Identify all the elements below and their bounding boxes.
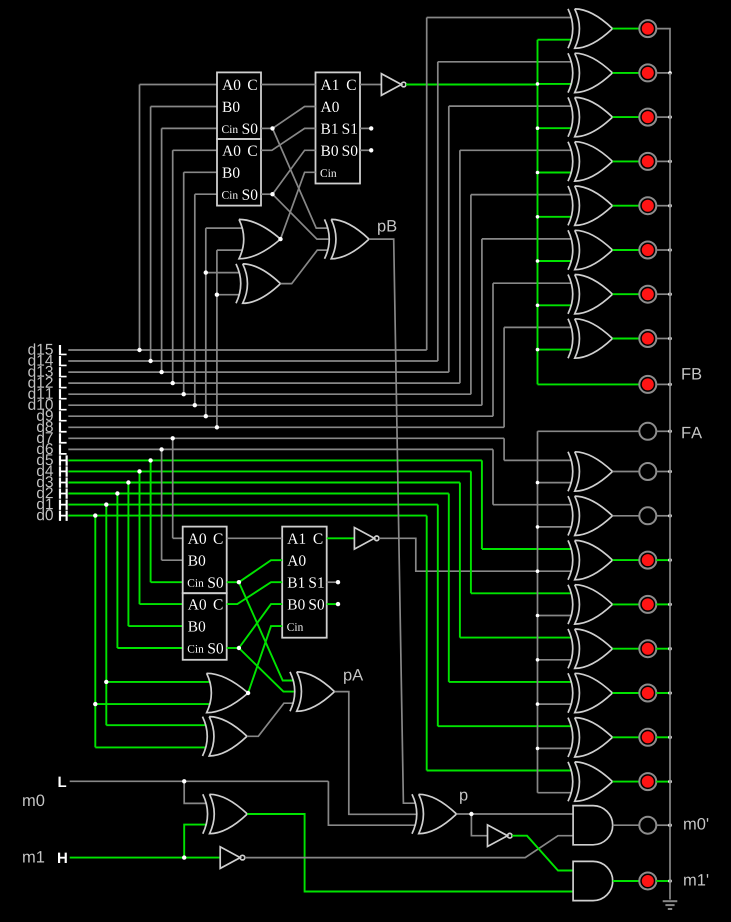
and gate m1' — [573, 861, 613, 900]
wire m0 to XOR p input 3 — [328, 781, 416, 825]
wire NOT-A out to gray bus and gate FO2 input — [379, 538, 572, 571]
wire d4 to XOR FA4 input 1 — [471, 592, 572, 594]
wire m1' AND to LED — [613, 880, 640, 882]
input pin d1 state glyph — [59, 500, 68, 510]
input pin d12 label — [28, 376, 52, 387]
two-bit adder block U-B — [316, 72, 361, 183]
input pin m1 state H — [58, 853, 67, 863]
wire d7 column down — [172, 438, 174, 538]
input pin d11 label — [28, 388, 52, 399]
or gate OR-A (d1,d0 carry) — [207, 673, 249, 712]
input pin d3 state glyph — [59, 477, 68, 487]
wire row d0 — [68, 515, 426, 517]
wire XOR FB4 to LED — [613, 160, 640, 162]
input pin d4 label — [37, 465, 53, 476]
wire XOR FA3 to LED — [613, 559, 640, 561]
label m1' — [684, 874, 708, 885]
xor gate pA (3-input parity) — [297, 672, 335, 711]
junction d0 column — [93, 702, 97, 706]
junction gray bus row 1 — [536, 481, 540, 485]
xor gate FB8 (bit 8 compare) — [575, 319, 613, 358]
FA-A1 pin labels — [188, 533, 206, 543]
junction d8 row — [215, 425, 219, 429]
junction d13 row — [159, 370, 163, 374]
wire LED bit 0 to rail — [656, 781, 670, 783]
wire XOR FB1 to LED — [613, 28, 640, 30]
junction d4 row — [137, 469, 141, 473]
junction rail bit 0 — [668, 780, 672, 784]
wire FA-B1 S0 to XOR pB input 1 — [273, 128, 329, 228]
wire d5 column down — [150, 460, 152, 582]
wire d10 to adder input — [195, 193, 217, 195]
junction green bus row 2 — [536, 82, 540, 86]
xor gate XOR-m (m0 xor m1) — [210, 794, 248, 833]
wire green bus to XOR FB5 input 2 — [538, 216, 573, 218]
label m0' — [684, 818, 708, 830]
wire d9 right column up — [492, 283, 494, 416]
LED output bit 6 (off) — [639, 507, 656, 524]
wire row d4 — [68, 470, 471, 472]
wire d11 column up — [183, 172, 185, 394]
label m1 — [23, 851, 44, 862]
junction d10 row — [193, 403, 197, 407]
junction green bus row 5 — [536, 215, 540, 219]
wire U-A S1 stub — [327, 581, 338, 583]
input pin d10 state glyph — [59, 400, 67, 410]
wire d10 column up — [194, 194, 196, 405]
xor gate FB6 (bit 10 compare) — [575, 230, 613, 269]
wire LED m1' to rail — [656, 880, 670, 882]
wire d6 to XOR FA2 input 1 — [493, 504, 572, 506]
full adder block FA-A1 — [183, 527, 227, 594]
wire XOR FA2 to LED — [613, 515, 640, 517]
LED output bit 14 (on) — [639, 64, 656, 81]
junction d8 column — [215, 293, 219, 297]
label pB — [378, 220, 396, 235]
junction d14 row — [148, 359, 152, 363]
wire d15 column up — [139, 85, 141, 351]
wire FA-B1 C to U-B A1 — [261, 84, 316, 86]
wire green bus to XOR FB1 input 2 — [538, 39, 573, 41]
junction rail bit 7 — [668, 470, 672, 474]
LED m1' (on) — [639, 873, 656, 890]
input pin d14 state glyph — [59, 356, 67, 366]
wire FA-A1 C to U-A A1 — [227, 537, 283, 539]
junction m0 row — [182, 779, 186, 783]
junction rail m0' — [668, 823, 672, 827]
wire NOT-p out to AND m1' input 1 — [512, 836, 573, 871]
junction d0 row — [93, 513, 97, 517]
xor gate pB (3-input parity) — [331, 219, 369, 258]
junction d7 row — [171, 436, 175, 440]
wire U-B C to inverter — [360, 84, 381, 86]
wire green bus to XOR FB6 input 2 — [538, 260, 573, 262]
wire d2 column down — [116, 494, 118, 649]
FA-A2 pin labels — [188, 599, 206, 609]
wire d7 to adder input — [173, 537, 183, 539]
LED output bit 4 (on) — [639, 596, 656, 613]
input pin m0 state L — [59, 777, 67, 787]
wire d4 to adder input — [140, 603, 183, 605]
label pA — [344, 669, 363, 684]
LED output bit 2 (on) — [639, 685, 656, 702]
wire m0 row — [70, 780, 329, 782]
wire d12 right column up — [459, 150, 461, 383]
junction rail bit 1 — [668, 736, 672, 740]
wire FA-A2 C to U-A B1 — [227, 582, 283, 604]
wire gray bus to XOR FA2 input 2 — [538, 526, 573, 528]
wire OR-A out to U-A Cin — [248, 626, 282, 693]
wire d5 to XOR FA3 input 1 — [482, 548, 572, 550]
LED FB (on) — [639, 376, 656, 393]
wire green bus to XOR FB8 input 2 — [538, 349, 573, 351]
wire XOR FB3 to LED — [613, 116, 640, 118]
wire row d3 — [68, 482, 460, 484]
wire gray bus to XOR FA1 input 2 — [538, 482, 573, 484]
wire XOR FA4 to LED — [613, 603, 640, 605]
wire d15 right column up — [426, 18, 428, 351]
junction rail bit 8 — [668, 337, 672, 341]
wire XOR FB2 to LED — [613, 72, 640, 74]
junction FA-A2 S0 — [237, 646, 241, 650]
junction FA-B1 S0 — [270, 126, 274, 130]
wire LED bit 12 to rail — [656, 160, 670, 162]
xor gate FB3 (bit 13 compare) — [575, 97, 613, 136]
junction d1 column — [104, 680, 108, 684]
wire FA-A1 S0 to U-A A0 — [239, 560, 282, 582]
junction gray bus row 3 — [536, 569, 540, 573]
wire LED bit 4 to rail — [656, 603, 670, 605]
wire U-A S0 stub — [327, 603, 338, 605]
or gate OR-B (d9,d8 carry) — [239, 219, 281, 258]
junction d5 row — [148, 458, 152, 462]
junction rail m1' — [668, 879, 672, 883]
wire FA-B2 S0 stub — [261, 193, 273, 195]
wire row d12 — [68, 382, 460, 384]
wire d3 to adder input — [128, 625, 182, 627]
wire d1 to XOR gate A — [106, 724, 206, 726]
wire LED FA to rail — [656, 430, 670, 432]
wire gray bus to XOR FA4 input 2 — [538, 615, 573, 617]
junction OR-B output — [278, 237, 282, 241]
wire XOR-m out to AND m1' input 2 — [247, 814, 573, 892]
wire FA-B1 S0 stub — [261, 127, 273, 129]
wire d0 right column down — [426, 516, 428, 771]
wire d11 right column up — [470, 195, 472, 395]
wire output rail vertical — [669, 73, 671, 900]
input pin d14 label — [28, 354, 53, 365]
full adder block FA-A2 — [183, 593, 227, 660]
wire U-B S0 stub — [360, 149, 371, 151]
wire d8 to OR gate B — [217, 249, 243, 251]
junction rail bit 4 — [668, 603, 672, 607]
two-bit adder block U-A — [282, 527, 327, 638]
junction p output — [469, 812, 473, 816]
wire d13 to XOR FB3 input 1 — [449, 105, 572, 107]
LED output bit 0 (on) — [639, 773, 656, 790]
LED output bit 5 (on) — [639, 552, 656, 569]
wire row d9 — [68, 415, 493, 417]
full adder block FA-B2 — [217, 139, 261, 206]
wire row d6 — [68, 448, 493, 450]
inverter NOT-p — [488, 825, 508, 847]
wire d8 right column up — [503, 327, 505, 427]
wire LED bit 7 to rail — [656, 471, 670, 473]
wire LED bit 5 to rail — [656, 559, 670, 561]
junction rail bit 5 — [668, 558, 672, 562]
wire FA-B1 S0 to U-B A0 — [273, 107, 316, 129]
wire LED bit 11 to rail — [656, 205, 670, 207]
wire gray bus to XOR FA6 input 2 — [538, 703, 573, 705]
wire LED bit 1 to rail — [656, 736, 670, 738]
junction rail bit 6 — [668, 514, 672, 518]
wire d15 to adder input — [140, 84, 218, 86]
LED output bit 12 (on) — [639, 153, 656, 170]
xor gate FB5 (bit 11 compare) — [575, 186, 613, 225]
input pin d15 state glyph — [59, 345, 67, 355]
LED output bit 9 (on) — [639, 286, 656, 303]
input pin d15 label — [28, 343, 53, 354]
xor gate FA4 (bit 4 compare) — [575, 585, 613, 624]
junction d6 row — [159, 447, 163, 451]
wire d8 tap to XOR gate B — [217, 294, 240, 296]
wire XOR2-B out to XOR pB input 3 — [281, 250, 329, 284]
post U-B S1 — [369, 126, 373, 130]
wire d1 column down — [105, 505, 107, 726]
post U-A S0 — [336, 602, 340, 606]
junction rail FA — [668, 430, 672, 434]
wire d6 right column down — [492, 449, 494, 504]
junction rail bit 9 — [668, 292, 672, 296]
wire gray bus to LED FA — [538, 430, 640, 432]
LED output bit 7 (off) — [639, 463, 656, 480]
wire XOR FA6 to LED — [613, 692, 640, 694]
wire pA to XOR p input 2 — [335, 692, 417, 815]
junction rail bit 11 — [668, 204, 672, 208]
junction gray bus row 4 — [536, 614, 540, 618]
xor gate FB1 (bit 15 compare) — [575, 9, 613, 48]
wire row d5 — [68, 459, 482, 461]
wire d9 to XOR FB7 input 1 — [493, 282, 572, 284]
wire LED bit 10 to rail — [656, 249, 670, 251]
junction green bus row 6 — [536, 259, 540, 263]
wire LED bit 6 to rail — [656, 515, 670, 517]
wire row d8 — [68, 426, 504, 428]
wire d8 to XOR FB8 input 1 — [504, 326, 572, 328]
junction rail bit 12 — [668, 160, 672, 164]
wire gray bus to XOR FA5 input 2 — [538, 659, 573, 661]
wire m0 to XOR m input 1 — [184, 781, 207, 803]
wire d3 to XOR FA5 input 1 — [460, 637, 572, 639]
label FB — [682, 368, 701, 379]
wire green bus to XOR FB7 input 2 — [538, 304, 573, 306]
wire green bus vertical — [537, 40, 539, 385]
input pin d3 label — [37, 476, 53, 487]
wire XOR FB8 to LED — [613, 338, 640, 340]
wire green bus to XOR FB2 input 2 — [538, 83, 573, 85]
wire d14 column up — [150, 107, 152, 362]
wire d5 to adder input — [151, 581, 183, 583]
LED output bit 1 (on) — [639, 729, 656, 746]
wire FA-A1 S0 to XOR pA input 1 — [239, 582, 294, 680]
junction d11 row — [182, 392, 186, 396]
wire d14 right column up — [437, 62, 439, 361]
wire d0 to XOR FA8 input 1 — [427, 770, 572, 772]
junction gray bus row 5 — [536, 658, 540, 662]
FA-B1 pin labels — [222, 80, 240, 90]
wire LED m0' to rail — [656, 824, 670, 826]
wire d1 right column down — [437, 505, 439, 727]
junction d12 row — [171, 381, 175, 385]
wire p to inverter NOT-p — [471, 814, 487, 836]
input pin d10 label — [28, 399, 53, 410]
wire gray bus vertical — [537, 431, 539, 792]
post U-B S0 — [369, 148, 373, 152]
LED output bit 10 (on) — [639, 242, 656, 259]
input pin d4 state glyph — [59, 466, 68, 476]
and gate m0' — [573, 806, 613, 845]
wire d3 column down — [127, 483, 129, 627]
junction rail bit 10 — [668, 248, 672, 252]
xor gate FA7 (bit 1 compare) — [575, 718, 613, 757]
label p — [460, 792, 467, 804]
input pin d5 label — [37, 454, 53, 465]
wire LED bit 2 to rail — [656, 692, 670, 694]
wire d12 column up — [172, 150, 174, 383]
junction rail bit 14 — [668, 71, 672, 75]
xor gate XOR2-A (d1,d0 sum) — [209, 717, 247, 756]
xor gate XOR2-B (d9,d8 sum) — [243, 264, 281, 303]
FA-B2 pin labels — [222, 145, 240, 155]
wire row d7 — [68, 437, 504, 439]
xor gate FB7 (bit 9 compare) — [575, 275, 613, 314]
input pin d8 label — [37, 421, 53, 432]
wire LED bit 3 to rail — [656, 648, 670, 650]
wire p out to AND m0' input 1 — [457, 813, 574, 815]
inverter NOT-m1 — [220, 847, 240, 869]
wire d11 to XOR FB5 input 1 — [471, 194, 572, 196]
wire LED bit 8 to rail — [656, 338, 670, 340]
wire d9 to OR gate B — [206, 227, 243, 229]
wire FA-B2 S0 to XOR pB input 2 — [273, 194, 329, 239]
wire d11 to adder input — [184, 171, 217, 173]
wire d0 to XOR gate A — [95, 746, 206, 748]
wire d14 to XOR FB2 input 1 — [438, 61, 572, 63]
input pin d5 state glyph — [59, 455, 68, 465]
input pin d1 label — [37, 498, 53, 509]
wire d15 to XOR FB1 input 1 — [427, 17, 572, 19]
LED output bit 13 (on) — [639, 109, 656, 126]
wire U-B S1 stub — [360, 127, 371, 129]
junction d15 row — [137, 348, 141, 352]
xor gate FB2 (bit 14 compare) — [575, 53, 613, 92]
wire d14 to adder input — [151, 106, 217, 108]
wire d10 to XOR FB6 input 1 — [482, 238, 572, 240]
inverter NOT-B — [381, 74, 401, 96]
input pin d9 label — [37, 410, 53, 421]
wire LED bit 9 to rail — [656, 293, 670, 295]
two-bit adder U-A pin labels — [287, 533, 305, 543]
wire d5 right column down — [481, 460, 483, 549]
two-bit adder U-B pin labels — [321, 80, 339, 90]
wire LED bit 13 to rail — [656, 116, 670, 118]
junction d1 row — [104, 502, 108, 506]
junction rail FB — [668, 383, 672, 387]
full adder block FA-B1 — [217, 72, 261, 139]
input pin d13 state glyph — [59, 367, 67, 377]
LED output bit 15 (on) — [639, 20, 656, 37]
wire d1 to OR gate A — [106, 681, 210, 683]
wire d2 to adder input — [117, 647, 182, 649]
wire d13 column up — [161, 128, 163, 372]
wire d7 right column down — [503, 438, 505, 460]
wire row d15 — [68, 349, 426, 351]
xor gate FB4 (bit 12 compare) — [575, 142, 613, 181]
label m0 — [23, 794, 44, 806]
wire XOR FA8 to LED — [613, 781, 640, 783]
label FA — [682, 427, 702, 438]
wire row d14 — [68, 360, 438, 362]
LED output bit 3 (on) — [639, 640, 656, 657]
wire row d13 — [68, 371, 449, 373]
wire XOR2-A out to XOR pA input 3 — [247, 703, 294, 736]
junction FA-B2 S0 — [270, 192, 274, 196]
xor gate FA2 (bit 6 compare) — [575, 496, 613, 535]
junction rail bit 3 — [668, 647, 672, 651]
wire d13 to adder input — [162, 127, 217, 129]
junction rail bit 2 — [668, 691, 672, 695]
input pin d0 state glyph — [59, 511, 68, 521]
wire d2 right column down — [448, 494, 450, 682]
wire d0 column down — [94, 516, 96, 748]
wire OR-B out to U-B Cin — [281, 172, 316, 239]
xor gate FA5 (bit 3 compare) — [575, 629, 613, 668]
wire FA-A2 S0 to XOR pA input 2 — [239, 648, 294, 692]
junction green bus row 4 — [536, 171, 540, 175]
input pin d8 state glyph — [59, 422, 67, 432]
wire row d10 — [68, 404, 482, 406]
LED output bit 11 (on) — [639, 197, 656, 214]
input pin d0 label — [37, 509, 53, 520]
wire d4 right column down — [470, 471, 472, 593]
junction d9 column — [204, 270, 208, 274]
wire XOR FA1 to LED — [613, 471, 640, 473]
wire row d1 — [68, 504, 438, 506]
junction d9 row — [204, 414, 208, 418]
wire FA-A2 S0 stub — [227, 647, 239, 649]
ground — [663, 900, 678, 902]
wire d10 right column up — [481, 239, 483, 405]
wire XOR FA5 to LED — [613, 648, 640, 650]
wire row d11 — [68, 393, 471, 395]
input pin d7 state glyph — [59, 433, 67, 443]
wire NOT-m1 out to AND m0' input 2 — [245, 836, 573, 858]
wire d7 to XOR FA1 input 1 — [504, 459, 572, 461]
wire row d2 — [68, 493, 449, 495]
wire XOR FB5 to LED — [613, 205, 640, 207]
wire m1 row — [70, 857, 221, 859]
input pin d2 state glyph — [59, 488, 68, 498]
input pin d13 label — [28, 365, 53, 376]
wire d4 column down — [139, 471, 141, 604]
wire NOT-B out to green bus — [406, 84, 538, 86]
wire FA-B2 S0 to U-B B0 — [273, 150, 316, 194]
junction green bus row 8 — [536, 348, 540, 352]
wire d0 to OR gate A — [95, 703, 210, 705]
input pin d6 label — [37, 443, 53, 454]
junction gray bus row 6 — [536, 702, 540, 706]
input pin d12 state glyph — [59, 378, 67, 388]
